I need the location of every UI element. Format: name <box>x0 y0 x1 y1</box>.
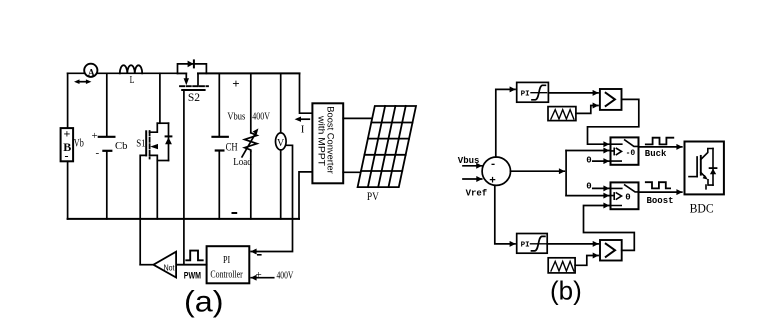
capacitor Cb top wire <box>106 73 108 136</box>
capacitor CH top plate <box>213 136 228 138</box>
capacitor CH branch top <box>218 73 220 136</box>
PWM pulse glyph <box>186 251 202 261</box>
top > glyph <box>606 93 615 106</box>
IGBT gate lead <box>689 176 697 178</box>
wire split to boost switch input2 <box>566 195 609 197</box>
voltmeter branch top <box>280 73 282 132</box>
wire buck output to BDC <box>639 146 682 148</box>
S2 gate bar <box>182 89 204 91</box>
Vbus input arrow <box>463 165 482 167</box>
boost pulse glyph <box>646 182 670 188</box>
boost converter MPPT block <box>312 103 343 183</box>
transistor S1 drain wire <box>159 73 161 123</box>
svg-text:(a): (a) <box>184 286 224 319</box>
BDC diode triangle <box>710 169 716 175</box>
wire top sawtooth to > <box>576 106 598 114</box>
top sawtooth glyph <box>551 110 574 119</box>
S1 source stub <box>150 155 158 219</box>
S2 down arrow <box>184 78 189 85</box>
svg-text:S1: S1 <box>136 138 145 149</box>
svg-text:-: - <box>490 159 497 171</box>
bottom sawtooth glyph <box>551 261 574 271</box>
bottom PI saturation block <box>517 234 548 254</box>
S1 body diode triangle <box>165 137 172 144</box>
current I arrow annotation <box>298 118 310 120</box>
buck switch stubs <box>611 144 622 161</box>
wire top right corner to boost block <box>300 73 313 113</box>
svg-text:Vbus: Vbus <box>458 156 480 166</box>
capacitor Cb bottom wire <box>106 151 108 219</box>
svg-text:Cb: Cb <box>115 140 128 152</box>
svg-text:PI: PI <box>223 254 230 266</box>
capacitor Cb top plate <box>99 136 115 138</box>
svg-text:+: + <box>232 76 239 91</box>
wire sum down to bottom PI <box>495 185 515 244</box>
boost switch port glyph <box>613 193 615 199</box>
load variable resistor zigzag <box>245 133 257 152</box>
svg-text:0: 0 <box>586 181 591 191</box>
wire PWM output line <box>176 264 207 266</box>
svg-text:400V: 400V <box>277 271 294 282</box>
top saturation glyph <box>531 92 547 94</box>
svg-text:0: 0 <box>625 193 630 203</box>
S1 source arrow <box>150 144 158 149</box>
current double arrow annotation <box>78 81 89 83</box>
top sawtooth block <box>548 107 576 121</box>
S1 body diode cathode bar <box>166 135 172 137</box>
voltmeter sense wire to PI controller <box>251 145 292 251</box>
svg-text:-0: -0 <box>626 149 636 158</box>
BDC diode branch <box>712 149 714 186</box>
wire top feedback to buck input1 <box>588 99 639 144</box>
bottom relational block > <box>600 240 622 261</box>
IGBT emitter bottom <box>706 180 713 189</box>
load bottom wire <box>250 151 252 219</box>
svg-text:-: - <box>65 149 69 163</box>
bottom saturation glyph <box>531 243 547 245</box>
Vref input arrow <box>463 178 482 180</box>
wire vertical split <box>565 151 567 196</box>
svg-text:Buck: Buck <box>645 149 667 159</box>
svg-text:V: V <box>277 138 285 149</box>
svg-text:0: 0 <box>586 156 591 166</box>
inductor L coil <box>120 65 142 73</box>
wire bottom PI to > <box>547 243 598 245</box>
svg-text:I: I <box>301 123 305 135</box>
S2 diode bypass bump <box>178 64 207 74</box>
svg-text:A: A <box>88 67 95 77</box>
IGBT gate bar <box>696 157 698 177</box>
boost switch lever <box>625 185 639 192</box>
bottom sawtooth block <box>548 258 575 273</box>
wire bottom sawtooth to > <box>575 256 598 266</box>
top PI saturation block <box>517 82 549 102</box>
wire 400V reference input <box>251 277 274 279</box>
wire split to buck switch input2 <box>566 150 609 152</box>
S1 drain stub <box>150 123 158 132</box>
wire left branch down to battery <box>67 73 69 128</box>
wire 0 to buck input3 <box>593 160 609 162</box>
IGBT emitter with arrow <box>701 173 706 178</box>
wire top rail left section <box>68 72 187 74</box>
voltmeter bottom wire <box>280 150 282 219</box>
Vbus - polarity mark <box>233 212 237 214</box>
capacitor Cb bottom plate <box>103 150 111 152</box>
S1 channel dashed <box>149 131 151 159</box>
wire bottom right corner to boost block <box>299 172 312 219</box>
wire boost output to BDC <box>639 191 682 193</box>
wire sum output to switches <box>511 170 565 172</box>
S1 body diode branch <box>168 123 170 160</box>
wire not output <box>140 264 153 266</box>
svg-text:Vb: Vb <box>74 135 84 149</box>
PV panel <box>358 106 416 187</box>
capacitor CH bottom wire <box>218 151 220 219</box>
top relational block > <box>600 89 622 110</box>
BDC diode cathode bar <box>710 167 717 169</box>
sum junction circle <box>482 157 510 185</box>
svg-text:400V: 400V <box>252 110 270 122</box>
IGBT collector <box>701 149 713 160</box>
svg-text:CH: CH <box>226 141 238 153</box>
svg-text:Vbus: Vbus <box>227 111 245 123</box>
svg-text:Boost: Boost <box>647 196 674 206</box>
bottom > glyph <box>606 244 615 257</box>
svg-text:Load: Load <box>233 156 252 168</box>
boost switch stubs <box>611 188 622 205</box>
voltmeter V1 ellipse <box>276 133 287 150</box>
wire 0 to boost input1 <box>593 187 609 189</box>
S1 gate bar <box>145 131 147 155</box>
S2 channel dashed <box>180 85 208 87</box>
svg-text:-: - <box>96 147 100 159</box>
not gate U2 <box>153 252 176 278</box>
S1 diode return wire <box>157 160 168 162</box>
S2 diode cathode bar <box>193 60 195 67</box>
transistor S2 left terminal <box>178 73 187 78</box>
buck switch block <box>611 137 639 164</box>
svg-text:PI: PI <box>521 242 530 250</box>
BDC block <box>685 142 724 195</box>
S1 drain tee <box>157 122 168 124</box>
wire top rail right section <box>198 72 300 74</box>
wire boost block to PV bottom <box>343 171 361 173</box>
battery B box <box>61 128 74 161</box>
svg-text:Vref: Vref <box>466 188 488 198</box>
S2 right terminal <box>197 73 199 86</box>
wire bottom rail <box>68 218 299 220</box>
wire sum up to top PI <box>496 89 515 157</box>
svg-text:+: + <box>64 127 71 141</box>
svg-text:PWM: PWM <box>184 270 201 281</box>
S1 gate wire to Not gate output <box>140 155 146 264</box>
wire bottom feedback to boost input3 <box>584 206 635 251</box>
svg-text:±: ± <box>256 269 262 281</box>
PI controller box <box>207 246 250 283</box>
svg-text:L: L <box>130 75 135 86</box>
ammeter A1 circle <box>84 64 97 77</box>
svg-text:+: + <box>92 130 98 142</box>
buck pulse glyph <box>646 138 674 145</box>
IGBT body bar <box>700 156 702 175</box>
svg-text:BDC: BDC <box>690 201 714 216</box>
svg-text:with MPPT: with MPPT <box>317 115 327 167</box>
svg-text:S2: S2 <box>188 92 200 104</box>
minus mark near PI input <box>258 254 261 256</box>
svg-text:Not: Not <box>164 263 175 273</box>
load variable arrow <box>242 133 256 157</box>
svg-text:(b): (b) <box>550 276 582 306</box>
wire battery bottom to rail <box>67 161 69 219</box>
S2 gate wire down to PWM line <box>183 90 185 265</box>
wire top PI to > <box>548 92 598 94</box>
buck switch lever <box>625 140 639 147</box>
svg-text:PI: PI <box>521 91 530 99</box>
S2 diode triangle <box>188 61 194 68</box>
capacitor CH bottom plate <box>216 149 224 151</box>
svg-text:Controller: Controller <box>210 270 243 281</box>
boost switch block <box>611 182 639 209</box>
load branch top wire <box>250 73 252 132</box>
wire boost block to PV top <box>343 117 371 119</box>
buck switch port glyph <box>613 148 615 154</box>
svg-text:PV: PV <box>367 191 380 203</box>
